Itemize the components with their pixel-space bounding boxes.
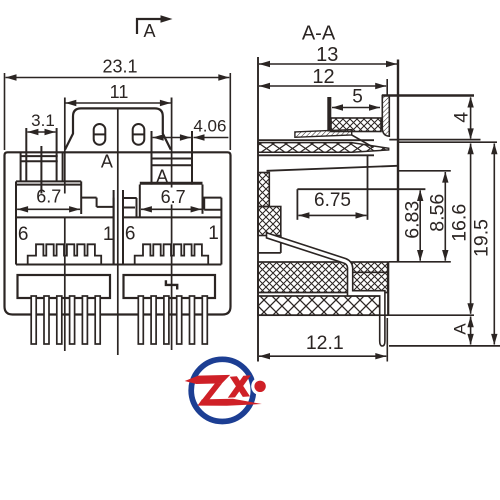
left port centerline (64, 98, 66, 352)
dim 16.6 vertical (470, 144, 472, 314)
screw slot hole right (theta) (133, 124, 145, 145)
logo red Z bottom bar with right streak (198, 399, 262, 406)
left lower box (18, 275, 111, 298)
insert part line (353, 271, 388, 273)
dim 23.1 (5, 73, 231, 150)
right latch (152, 131, 193, 185)
right hood (140, 183, 203, 217)
dim 8.56 vertical (444, 172, 446, 261)
contact bar solid (327, 97, 331, 132)
left latch prongs (21, 128, 63, 194)
svg-text:A-A: A-A (302, 23, 336, 45)
svg-text:11: 11 (110, 82, 129, 102)
extension line y139.6 (389, 139, 480, 141)
bottom coarse hatch block (258, 296, 380, 315)
dim 6.7 right (158, 188, 188, 205)
rear wall edge (367, 156, 369, 220)
spring strip tail diagonal (352, 135, 374, 148)
body outline (5, 152, 231, 314)
dim 11 (65, 98, 172, 104)
dim 4.06 (153, 137, 191, 139)
logo blue ring (191, 359, 253, 421)
svg-text:A: A (143, 21, 155, 41)
left wall hatched wide (258, 207, 281, 236)
svg-text:3.1: 3.1 (31, 111, 55, 130)
left hood (16, 181, 81, 264)
right lower box (124, 275, 216, 298)
svg-text:A: A (450, 323, 469, 335)
svg-text:5: 5 (352, 87, 363, 108)
dim 12.1 (386, 318, 388, 362)
flange top line (382, 94, 474, 96)
right body edge A-A (397, 60, 399, 263)
shelf line (297, 188, 425, 190)
logo red dot (254, 381, 265, 392)
extension line y262 right (389, 261, 451, 263)
hatch right edge (387, 262, 389, 315)
svg-text:6: 6 (125, 224, 136, 245)
svg-text:6.7: 6.7 (36, 187, 61, 207)
dim 19.5 vertical (493, 144, 495, 345)
svg-text:12: 12 (312, 66, 334, 88)
shield line (258, 139, 374, 141)
top tab with flares (65, 108, 171, 149)
wall lower edge (258, 236, 281, 253)
dim 13 (259, 63, 397, 65)
svg-text:4.06: 4.06 (193, 117, 226, 136)
screw slot hole left (theta) (94, 124, 106, 145)
port floor line (267, 166, 398, 171)
right pins (138, 296, 207, 344)
svg-text:4: 4 (451, 112, 473, 123)
logo ring gap at dot (251, 377, 269, 395)
logo red X stroke 2 (228, 375, 251, 398)
svg-text:A: A (101, 152, 113, 172)
dim 5 (332, 107, 380, 109)
section cut marker top (137, 19, 163, 34)
right port centerline (171, 98, 173, 351)
shelf left edge (296, 189, 298, 220)
contact support block (5) (331, 118, 381, 132)
divider centerline (117, 108, 119, 355)
left outline A-A (257, 57, 259, 362)
right port opening (114, 190, 222, 265)
band bottom line (258, 154, 374, 156)
right port contact comb (135, 244, 209, 264)
break mark in right box (166, 280, 177, 289)
svg-text:6.83: 6.83 (401, 201, 423, 239)
svg-text:8.56: 8.56 (427, 194, 449, 232)
svg-text:12.1: 12.1 (306, 332, 344, 354)
svg-text:6: 6 (18, 224, 29, 245)
svg-text:6.75: 6.75 (314, 190, 351, 211)
bottom dense hatch block (258, 262, 388, 293)
lower contact bar and bent pin channel (267, 233, 385, 346)
left port contact comb (28, 244, 102, 264)
dim 3.1 (27, 131, 55, 133)
left pins (31, 296, 100, 344)
dim 6.83 vertical (419, 190, 421, 260)
svg-text:13: 13 (316, 44, 338, 66)
dim A vertical (470, 317, 472, 345)
svg-text:16.6: 16.6 (449, 204, 471, 242)
extension line y345.9 bottom (389, 345, 500, 347)
dim 12 (386, 79, 388, 95)
svg-text:1: 1 (208, 223, 219, 244)
dim 4 vertical (470, 98, 472, 139)
latch arm hatched band (258, 143, 389, 153)
logo red Z top bar with left streak (185, 375, 231, 384)
flange hatched strip (382, 96, 389, 137)
extension line y315 (258, 314, 474, 316)
dim 6.7 left (17, 208, 80, 210)
svg-text:1: 1 (103, 224, 114, 245)
logo red X stroke 1 (230, 376, 250, 397)
svg-text:23.1: 23.1 (102, 57, 137, 77)
svg-text:19.5: 19.5 (471, 219, 493, 257)
extension line y170.8 right (398, 170, 451, 172)
spring strip hatched (295, 130, 352, 138)
dim 6.75 (298, 214, 366, 216)
left wall hatched narrow (258, 173, 269, 207)
logo red Z diagonal (198, 383, 223, 405)
svg-text:6.7: 6.7 (161, 187, 186, 207)
left port opening (16, 198, 221, 265)
extension line y142.2 (398, 141, 497, 143)
